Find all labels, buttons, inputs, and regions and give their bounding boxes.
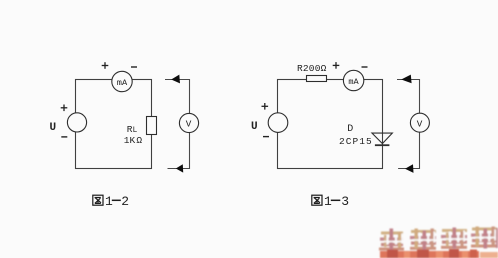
wire loop (left circuit) bbox=[76, 80, 152, 169]
svg-text:U: U bbox=[50, 122, 57, 134]
plus sign (left ammeter) bbox=[102, 62, 109, 69]
wire loop (right circuit) bbox=[278, 80, 383, 169]
watermark char 3 (zi) bbox=[441, 228, 467, 249]
svg-text:1KΩ: 1KΩ bbox=[124, 135, 143, 146]
minus sign (left ammeter) bbox=[131, 66, 137, 68]
minus sign (left source) bbox=[61, 136, 67, 138]
resistor RL bbox=[147, 117, 157, 135]
probe arrow bottom (left voltmeter) bbox=[176, 164, 183, 172]
minus sign (right source) bbox=[263, 136, 269, 138]
probe arrow top (right voltmeter) bbox=[401, 75, 411, 84]
svg-text:RL: RL bbox=[127, 124, 138, 135]
svg-text:V: V bbox=[186, 119, 192, 130]
svg-text:mA: mA bbox=[117, 78, 128, 88]
svg-text:D: D bbox=[347, 124, 353, 135]
svg-text:3: 3 bbox=[341, 194, 349, 209]
probe arrow bottom (right voltmeter) bbox=[405, 164, 414, 173]
svg-text:2: 2 bbox=[121, 194, 129, 209]
hanzi TU (picture) glyph box bbox=[312, 195, 322, 205]
ammeter mA (left circuit) bbox=[112, 71, 132, 91]
voltmeter V (left circuit) bbox=[179, 113, 198, 132]
watermark char 1 (dian) bbox=[379, 229, 404, 251]
caption 图1-2 bbox=[93, 194, 129, 209]
svg-text:1: 1 bbox=[324, 194, 332, 209]
voltmeter V (right circuit) bbox=[410, 113, 429, 132]
svg-text:2CP15: 2CP15 bbox=[339, 136, 373, 147]
voltage source U (left circuit) bbox=[67, 113, 86, 132]
voltmeter branch wire (right circuit) bbox=[397, 80, 420, 169]
svg-text:V: V bbox=[417, 118, 423, 129]
watermark char 2 (qi) bbox=[410, 229, 436, 250]
watermark red base band bbox=[380, 251, 479, 258]
ammeter mA (right circuit) bbox=[343, 70, 363, 90]
hanzi TU (picture) glyph box bbox=[93, 195, 103, 205]
voltmeter branch wire (left circuit) bbox=[165, 80, 190, 169]
resistor R 200 ohm bbox=[307, 76, 327, 82]
svg-text:U: U bbox=[251, 121, 258, 133]
watermark white speckle gaps bbox=[384, 230, 496, 245]
voltage source U (right circuit) bbox=[268, 113, 288, 133]
plus sign (right ammeter) bbox=[333, 62, 340, 69]
probe arrow top (left voltmeter) bbox=[171, 75, 180, 84]
diode D 2CP15 bbox=[372, 133, 392, 145]
caption 图1-3 bbox=[312, 194, 349, 209]
watermark char 4 (liao) bbox=[471, 227, 498, 249]
svg-text:R200Ω: R200Ω bbox=[297, 63, 327, 74]
plus sign (left source) bbox=[61, 105, 68, 112]
minus sign (right ammeter) bbox=[362, 66, 368, 68]
svg-text:mA: mA bbox=[348, 77, 359, 87]
plus sign (right source) bbox=[262, 103, 269, 110]
svg-text:1: 1 bbox=[105, 194, 113, 209]
